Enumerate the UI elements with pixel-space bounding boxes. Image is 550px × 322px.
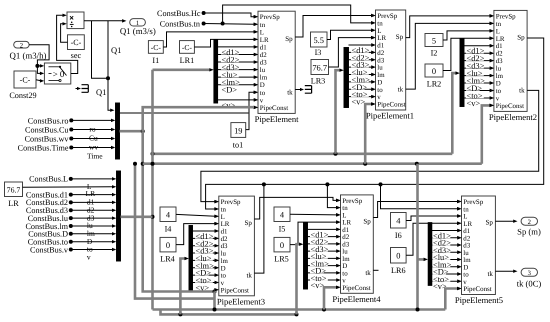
wire I5 to L4 — [290, 213, 340, 216]
svg-text:PipeElement: PipeElement — [255, 114, 300, 124]
bus creator 1 — [116, 103, 120, 159]
svg-text:I6: I6 — [395, 231, 402, 240]
outport 1 Q1 (m3/s) — [120, 19, 156, 37]
bus creator 2 — [117, 171, 121, 261]
svg-text:<v>: <v> — [311, 281, 325, 290]
subsystem PipeElement5 U5 — [455, 196, 503, 305]
svg-text:lu: lu — [260, 67, 266, 74]
svg-text:tk: tk — [519, 87, 525, 95]
wire Sp1 to PrevSp2 — [406, 14, 494, 37]
svg-text:PipeConst: PipeConst — [496, 103, 524, 110]
wire tk1 to tn2 — [406, 22, 494, 89]
constant I5 4 — [274, 207, 290, 234]
svg-text:tk: tk — [487, 270, 493, 278]
svg-text:tk: tk — [246, 271, 252, 279]
svg-text:d3: d3 — [221, 243, 228, 250]
svg-text:lm: lm — [342, 256, 350, 263]
constant LR2 0 — [425, 64, 443, 88]
wire LR3 to LR1 — [329, 36, 376, 67]
svg-text:LR3: LR3 — [311, 77, 326, 86]
selector S0 wires — [218, 45, 258, 110]
svg-text:d1: d1 — [496, 43, 503, 50]
svg-text:d1: d1 — [377, 43, 384, 50]
bus selector S5 — [428, 223, 432, 286]
selector S2 wires — [464, 44, 494, 108]
svg-text:v: v — [342, 278, 346, 285]
svg-text:d1: d1 — [463, 228, 470, 235]
ConstBus.tn source — [160, 19, 258, 28]
subsystem PipeElement4 U4 — [332, 195, 381, 304]
svg-text:tn: tn — [260, 22, 266, 29]
svg-text:2: 2 — [20, 42, 23, 49]
svg-text:lu: lu — [377, 65, 383, 72]
constant LR5 0 — [274, 237, 290, 263]
svg-text:LR2: LR2 — [427, 79, 442, 88]
selector S4 wires — [308, 228, 341, 290]
wire LR5 to LR4port — [290, 220, 340, 244]
svg-text:PipeElement3: PipeElement3 — [217, 296, 265, 306]
svg-text:<v>: <v> — [467, 99, 481, 108]
svg-text:L: L — [496, 28, 500, 35]
wire sec to divide — [61, 22, 68, 42]
svg-text:ConstBus.wv: ConstBus.wv — [25, 135, 70, 144]
svg-text:L: L — [463, 214, 467, 221]
wire tk0 to terminator — [295, 86, 311, 94]
constant sec — [68, 35, 85, 60]
ConstBus.d3 input — [26, 206, 116, 222]
wire Sp0 to PrevSp1 — [295, 14, 375, 37]
terminator unused switch — [76, 85, 89, 93]
ConstBus.Cu input — [25, 126, 115, 143]
wire I3 to L1 — [327, 29, 375, 40]
wire tk5 to outport — [495, 269, 517, 272]
svg-text:I5: I5 — [279, 225, 286, 234]
wire switch out to product — [57, 14, 78, 74]
bus riser selector2 — [452, 71, 460, 153]
constant LR3 76.7 — [311, 60, 329, 86]
wire LR4 to LR3port — [176, 222, 219, 245]
svg-text:lm: lm — [377, 72, 385, 79]
svg-text:0: 0 — [166, 241, 170, 250]
wire I6 to L5 — [406, 214, 461, 220]
bus riser PipeConst5 — [445, 287, 461, 310]
bus drop selector5 — [416, 164, 428, 312]
outport 3 tk (0C) — [517, 268, 542, 288]
wire Sp2 feedback line T — [206, 38, 544, 211]
svg-text:PrevSp: PrevSp — [496, 13, 516, 20]
svg-text:to: to — [260, 90, 266, 97]
svg-text:5: 5 — [432, 36, 436, 45]
svg-text:d2: d2 — [496, 51, 503, 58]
wire to1 to to0 — [246, 91, 258, 130]
svg-text:I3: I3 — [315, 48, 322, 57]
svg-text:Sp (m): Sp (m) — [517, 227, 541, 237]
ConstBus.L input — [29, 175, 116, 191]
svg-text:ConstBus.v: ConstBus.v — [30, 245, 69, 254]
constant I1 — [148, 41, 163, 65]
svg-text:lu: lu — [221, 251, 227, 258]
wire LR1 to LR0 — [194, 38, 257, 47]
constant I3 5.5 — [311, 32, 328, 57]
svg-text:-C-: -C- — [151, 43, 162, 52]
svg-text:PipeElement4: PipeElement4 — [332, 294, 381, 304]
svg-text:PipeElement1: PipeElement1 — [366, 111, 414, 121]
svg-text:-C-: -C- — [71, 38, 82, 47]
bus riser PipeConst4 — [324, 286, 340, 310]
svg-text:> 0: > 0 — [53, 69, 65, 79]
svg-text:L: L — [377, 28, 381, 35]
svg-text:PipeElement2: PipeElement2 — [489, 112, 537, 122]
svg-text:LR: LR — [463, 221, 472, 228]
ConstBus.d2 input — [26, 198, 116, 214]
wire Q1 in to switch — [29, 45, 49, 75]
svg-text:d2: d2 — [260, 52, 267, 59]
svg-text:-C-: -C- — [182, 43, 193, 52]
svg-text:d2: d2 — [463, 235, 470, 242]
svg-text:lm: lm — [221, 258, 229, 265]
svg-text:tn: tn — [496, 21, 502, 28]
bus riser selector3 — [180, 257, 188, 315]
svg-text:I4: I4 — [165, 225, 172, 234]
svg-text:d2: d2 — [342, 234, 349, 241]
bus selector S1 — [344, 48, 349, 108]
svg-text:PrevSp: PrevSp — [463, 199, 483, 206]
wire LR6 to LR5port — [406, 222, 461, 256]
product divide block — [67, 12, 84, 29]
selector S5 wires — [432, 229, 462, 291]
wire Q1 loop down — [92, 21, 115, 112]
ConstBus.to input — [28, 238, 117, 254]
svg-text:LR: LR — [342, 220, 351, 227]
svg-text:v: v — [260, 97, 264, 104]
svg-text:v: v — [463, 279, 467, 286]
svg-text:Const29: Const29 — [9, 91, 36, 100]
ConstBus.lm input — [25, 222, 116, 238]
bus riser PipeConst1 — [365, 102, 375, 163]
svg-text:Time: Time — [87, 152, 103, 161]
svg-text:ro: ro — [89, 124, 95, 133]
svg-text:Q1 (m3/s): Q1 (m3/s) — [120, 26, 156, 36]
svg-text:Cu: Cu — [89, 133, 98, 142]
svg-text:PrevSp: PrevSp — [221, 199, 241, 206]
svg-text:LR: LR — [86, 189, 96, 198]
svg-text:0: 0 — [396, 252, 400, 261]
ConstBus.D input — [28, 230, 116, 246]
svg-text:D: D — [342, 263, 347, 270]
svg-text:d1: d1 — [221, 229, 228, 236]
svg-text:tk: tk — [398, 85, 404, 93]
svg-text:Sp: Sp — [363, 218, 371, 226]
bus wire to PipeConst0 — [143, 106, 258, 132]
bus selector S3 — [189, 226, 193, 292]
svg-text:PrevSp: PrevSp — [260, 14, 280, 21]
bus run B GeomBus bottom — [161, 310, 299, 317]
outport 2 Sp (m) — [517, 217, 541, 236]
bus run A — [153, 308, 446, 312]
svg-text:D: D — [496, 81, 501, 88]
svg-text:lm: lm — [463, 257, 471, 264]
svg-text:0: 0 — [432, 67, 436, 76]
wire LR2 to LR2port — [443, 37, 494, 71]
svg-text:I1: I1 — [152, 56, 159, 65]
svg-text:lu: lu — [496, 66, 502, 73]
svg-text:2: 2 — [528, 219, 531, 226]
wire LR const to bus2 — [23, 185, 117, 198]
svg-text:ConstBus.tn: ConstBus.tn — [160, 19, 200, 28]
svg-text:PrevSp: PrevSp — [342, 198, 362, 205]
bus selector S0 — [214, 40, 218, 103]
svg-text:Q1 (m3/h): Q1 (m3/h) — [10, 51, 47, 61]
svg-text:LR: LR — [260, 37, 269, 44]
wire divide out to outport — [84, 19, 126, 22]
bus riser selector1 — [336, 68, 344, 153]
svg-text:d3: d3 — [260, 60, 267, 67]
svg-text:v: v — [221, 280, 225, 287]
svg-text:tk (0C): tk (0C) — [517, 278, 542, 288]
constant to1 19 — [231, 123, 246, 150]
bus run2 ConstBus mid — [143, 162, 482, 166]
svg-text:D: D — [221, 265, 226, 272]
svg-text:lm: lm — [496, 73, 504, 80]
svg-text:lm: lm — [260, 75, 268, 82]
svg-text:LR1: LR1 — [180, 56, 195, 65]
ConstBus.Hc source — [157, 9, 258, 18]
ConstBus.wv input — [25, 135, 116, 152]
svg-text:tk: tk — [365, 269, 371, 277]
svg-text:<D>: <D> — [222, 86, 238, 95]
svg-text:sec: sec — [71, 51, 82, 60]
wire tk2 feedback to PrevSp3 line — [201, 90, 539, 203]
svg-text:D: D — [377, 79, 382, 86]
svg-text:LR: LR — [8, 199, 19, 208]
svg-text:D: D — [260, 82, 265, 89]
svg-text:PipeConst: PipeConst — [260, 105, 288, 112]
selector S1 wires — [349, 43, 376, 106]
bus wire bar1 out — [120, 129, 145, 133]
svg-text:d3: d3 — [463, 243, 470, 250]
wire tn4 drop from line T — [325, 182, 340, 209]
wire bus1 aux to1 line — [120, 112, 249, 114]
subsystem PipeElement U0 — [254, 11, 299, 124]
svg-text:wv: wv — [89, 142, 98, 151]
svg-text:76.7: 76.7 — [312, 64, 327, 73]
constant LR6 0 — [391, 248, 407, 276]
constant I2 5 — [425, 34, 443, 58]
svg-text:d2: d2 — [221, 236, 228, 243]
svg-text:Q1: Q1 — [111, 45, 121, 55]
svg-text:PrevSp: PrevSp — [377, 13, 397, 20]
svg-text:ConstBus.ro: ConstBus.ro — [28, 116, 69, 125]
wire Sp5 to outport — [495, 219, 517, 222]
wire Sp3 to PrevSp4 — [254, 197, 340, 219]
svg-text:to: to — [221, 273, 227, 280]
wire tk4 stub — [373, 269, 378, 271]
svg-text:d3: d3 — [342, 241, 349, 248]
subsystem PipeElement1 U1 — [366, 10, 414, 121]
svg-text:tn: tn — [377, 20, 383, 27]
svg-text:LR4: LR4 — [160, 255, 175, 264]
bus branch x135 — [133, 162, 215, 299]
svg-text:LR: LR — [496, 36, 505, 43]
bus spine GeomBus — [151, 70, 155, 310]
label Q1 lower — [96, 87, 106, 97]
constant LR1 — [180, 41, 195, 65]
svg-text:<v>: <v> — [352, 98, 366, 107]
subsystem PipeElement3 U3 — [215, 196, 265, 306]
svg-text:tn: tn — [221, 206, 227, 213]
bus riser selector4 — [297, 242, 304, 314]
svg-text:d2: d2 — [377, 50, 384, 57]
label Q1 upper — [111, 45, 121, 55]
ConstBus.lu input — [28, 214, 117, 230]
bus wire bar2 out — [121, 216, 153, 219]
svg-text:tk: tk — [287, 88, 293, 96]
svg-text:Sp: Sp — [396, 33, 404, 41]
svg-text:5.5: 5.5 — [313, 36, 323, 45]
svg-text:v: v — [496, 95, 500, 102]
ConstBus.ro input — [28, 116, 116, 133]
wire I4 to L3 — [176, 214, 219, 218]
svg-text:I2: I2 — [431, 49, 438, 58]
bus drop to run A — [213, 292, 216, 310]
constant I4 4 — [160, 207, 176, 234]
svg-text:LR6: LR6 — [391, 266, 406, 275]
svg-text:to1: to1 — [233, 140, 243, 149]
svg-text:ConstBus.Cu: ConstBus.Cu — [25, 126, 68, 135]
svg-text:PipeConst: PipeConst — [463, 286, 491, 293]
svg-text:L: L — [342, 212, 346, 219]
svg-text:v: v — [377, 94, 381, 101]
svg-text:0: 0 — [280, 241, 284, 250]
selector S3 wires — [193, 229, 219, 292]
bus junction PipeConst3 — [213, 288, 219, 293]
svg-text:ConstBus.Time: ConstBus.Time — [18, 144, 69, 153]
ConstBus.d1 input — [26, 190, 116, 206]
svg-text:d3: d3 — [377, 57, 384, 64]
constant Const29 — [9, 71, 36, 100]
constant I6 4 — [391, 213, 407, 241]
svg-text:Q1: Q1 — [96, 87, 106, 97]
svg-text:L: L — [260, 29, 264, 36]
svg-text:PipeConst: PipeConst — [342, 285, 370, 292]
bus wire to selector0 — [153, 68, 214, 71]
bus spine ConstBus down — [141, 131, 215, 291]
svg-text:d1: d1 — [260, 44, 267, 51]
inport 2 Q1 (m3/h) — [10, 41, 47, 60]
svg-text:ConstBus.Hc: ConstBus.Hc — [157, 9, 201, 18]
bus selector S2 — [460, 39, 464, 107]
wire tn5 feed — [379, 182, 462, 210]
svg-text:PipeConst: PipeConst — [221, 287, 249, 294]
svg-text:19: 19 — [234, 126, 242, 135]
wire tk3 up to line T — [254, 182, 266, 273]
bus run1 GeomBus — [151, 152, 453, 156]
wire Const29 to switch — [36, 79, 44, 82]
svg-text:d3: d3 — [496, 58, 503, 65]
svg-text:Sp: Sp — [517, 34, 525, 42]
svg-text:to: to — [463, 272, 469, 279]
ConstBus.v input — [30, 245, 116, 261]
svg-text:ConstBus.L: ConstBus.L — [29, 175, 68, 184]
svg-text:lu: lu — [342, 249, 348, 256]
svg-text:v: v — [87, 253, 91, 262]
constant 76.7 LR — [5, 182, 23, 208]
svg-text:76.7: 76.7 — [7, 185, 21, 194]
svg-text:LR5: LR5 — [274, 255, 289, 264]
constant LR4 0 — [160, 237, 176, 263]
wire I2 to L2 — [443, 29, 494, 40]
svg-text:d1: d1 — [342, 227, 349, 234]
bus riser PipeConst2 — [482, 104, 494, 164]
wire tn branch to tn1 — [223, 5, 376, 25]
svg-text:Sp: Sp — [244, 219, 252, 227]
svg-text:LR: LR — [221, 221, 230, 228]
svg-text:D: D — [463, 264, 468, 271]
wire I1 to L0 — [163, 30, 257, 47]
svg-text:-C-: -C- — [20, 76, 31, 85]
svg-text:tn: tn — [463, 206, 469, 213]
bus selector S4 — [304, 223, 308, 290]
switch block — [44, 63, 70, 84]
subsystem PipeElement2 U2 — [489, 10, 537, 122]
svg-text:PipeElement5: PipeElement5 — [455, 295, 503, 305]
svg-text:lu: lu — [463, 250, 469, 257]
svg-text:L: L — [221, 214, 225, 221]
svg-text:PipeConst: PipeConst — [377, 102, 405, 109]
svg-text:Sp: Sp — [285, 35, 293, 43]
svg-text:tn: tn — [342, 205, 348, 212]
svg-text:LR: LR — [377, 35, 386, 42]
wire Sp4 to PrevSp5 — [373, 200, 461, 218]
svg-text:Sp: Sp — [485, 219, 493, 227]
svg-text:to: to — [342, 270, 348, 277]
ConstBus.Time input — [18, 144, 116, 161]
svg-text:to: to — [377, 87, 383, 94]
svg-text:to: to — [496, 88, 502, 95]
